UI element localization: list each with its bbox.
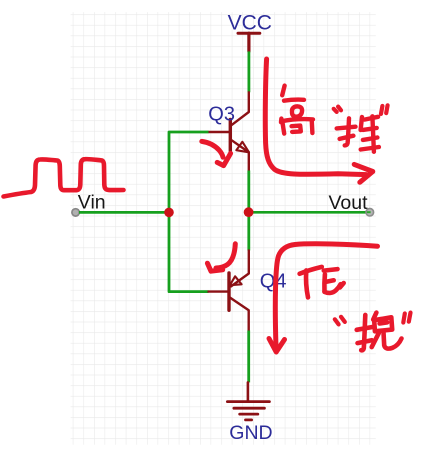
annotation text 推 (push) — [337, 116, 379, 152]
wire input node to Q4 base — [169, 212, 209, 291]
annotation quote marks after 推 — [381, 105, 388, 114]
transistor Q4 — [209, 251, 249, 331]
wire input node to Q3 base — [169, 132, 209, 212]
wire Q4 collector to GND — [247, 331, 250, 383]
annotation text 低 (low) — [300, 267, 344, 298]
pin Vin — [72, 209, 79, 216]
svg-text:GND: GND — [229, 422, 272, 444]
wire Q3 emitter to output node — [247, 171, 250, 213]
annotation text 挽 (pull) — [357, 313, 402, 351]
ground symbol GND — [227, 382, 269, 420]
svg-text:Q3: Q3 — [208, 103, 235, 125]
junction output node — [244, 207, 254, 217]
annotation quote marks before 推 — [334, 107, 341, 112]
junction input node — [164, 208, 174, 218]
annotation quote marks before 挽 — [335, 317, 345, 325]
annotation quote marks after 挽 — [403, 313, 410, 323]
annotation pull curve arrow (low side) — [269, 244, 378, 352]
annotation curved arrow at Q4 — [207, 244, 235, 271]
wire VCC to Q3 collector — [247, 51, 250, 92]
transistor Q3 — [209, 92, 250, 170]
annotation square wave input — [4, 159, 124, 196]
annotation push curve arrow (high side) — [265, 59, 373, 182]
power symbol VCC — [238, 33, 260, 51]
wire Vin to input node — [79, 211, 169, 214]
annotation curved arrow at Q3 — [202, 141, 231, 165]
annotation text 高 (high) — [281, 86, 313, 134]
wire output node to Vout pin — [249, 211, 367, 214]
svg-text:Vout: Vout — [329, 192, 369, 214]
pin Vout — [366, 208, 374, 216]
wire output node to Q4 emitter — [247, 212, 250, 250]
svg-text:Vin: Vin — [78, 191, 106, 213]
svg-text:VCC: VCC — [228, 12, 272, 35]
